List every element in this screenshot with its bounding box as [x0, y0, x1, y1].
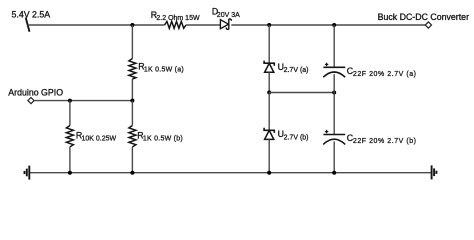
capacitor C 22F 20% 2.7V (a): [323, 63, 345, 77]
ground right: [432, 165, 437, 179]
svg-text:Arduino GPIO: Arduino GPIO: [8, 88, 63, 98]
capacitor C 22F 20% 2.7V (b): [323, 130, 345, 145]
svg-text:22F 20% 2.7V (b): 22F 20% 2.7V (b): [353, 138, 417, 145]
wire cap b to bottom rail: [333, 141, 335, 172]
label D 20V 3A: [212, 7, 240, 19]
label R 2.2 Ohm 15W: [151, 10, 200, 22]
node GPIO rail junction at R1K: [130, 99, 134, 103]
label C 22F 20% 2.7V (b): [347, 133, 417, 145]
label C 22F 20% 2.7V (a): [347, 66, 417, 78]
svg-text:1K 0.5W (a): 1K 0.5W (a): [144, 67, 184, 74]
diode D1 schottky 20V 3A: [220, 19, 231, 30]
port diamond Arduino GPIO: [28, 98, 34, 104]
node top rail junction at R1Ka: [130, 23, 134, 27]
label R 1K 0.5W (b): [137, 131, 183, 143]
wire R10K to bottom rail: [69, 147, 71, 173]
wire zener a to mid node: [268, 72, 270, 92]
label R 10K 0.25W: [76, 131, 117, 143]
label R 1K 0.5W (a): [138, 62, 184, 74]
node GPIO rail junction at R10K: [68, 99, 72, 103]
zener U 2.7V (a): [264, 61, 274, 73]
wire top rail left segment: [28, 24, 165, 26]
zener U 2.7V (b): [264, 128, 274, 140]
node bottom rail at cap b: [332, 171, 336, 175]
label U 2.7V (b): [278, 129, 309, 141]
wire mid node to cap b: [333, 93, 335, 135]
wire top rail to cap a: [333, 25, 335, 67]
resistor R1K 0.5W (b): [129, 126, 136, 147]
ground left: [25, 166, 30, 180]
resistor R10K 0.25W: [66, 126, 73, 147]
wire R1Kb to bottom rail: [131, 147, 133, 173]
node bottom rail at zener b: [267, 171, 271, 175]
node top rail junction at cap a: [332, 23, 336, 27]
wire top rail to zener a: [268, 25, 270, 63]
wire R1Ka to GPIO node: [131, 79, 133, 101]
wire top rail right segment: [231, 24, 425, 26]
wire zener b to bottom rail: [268, 139, 270, 172]
wire from top rail to R1Ka: [131, 25, 133, 59]
wire bottom rail: [29, 172, 431, 174]
port diamond Buck DC-DC Converter: [425, 22, 431, 28]
node mid rail left: [267, 91, 271, 95]
node bottom rail at R1Kb: [130, 171, 134, 175]
wire GPIO node to R10K: [69, 101, 71, 126]
svg-text:1K 0.5W (b): 1K 0.5W (b): [143, 136, 183, 143]
input terminal stub: [26, 18, 30, 32]
wire Arduino GPIO rail: [34, 100, 132, 102]
resistor R1K 0.5W (a): [129, 59, 136, 80]
svg-text:Buck DC-DC Converter: Buck DC-DC Converter: [378, 12, 469, 22]
svg-text:2.7V (a): 2.7V (a): [284, 67, 309, 74]
wire mid node to zener b: [268, 93, 270, 131]
wire GPIO node to R1Kb: [131, 101, 133, 126]
svg-text:22F 20% 2.7V (a): 22F 20% 2.7V (a): [353, 71, 417, 78]
resistor R1 2.2 Ohm 15W: [165, 21, 186, 28]
wire cap a to mid node: [333, 74, 335, 92]
svg-text:10K 0.25W: 10K 0.25W: [82, 136, 117, 143]
label U 2.7V (a): [278, 62, 309, 74]
svg-text:2.2 Ohm 15W: 2.2 Ohm 15W: [156, 15, 200, 22]
svg-text:2.7V (b): 2.7V (b): [284, 134, 309, 141]
node mid rail right: [332, 91, 336, 95]
svg-text:20V 3A: 20V 3A: [217, 12, 240, 19]
node top rail junction at zener a: [267, 23, 271, 27]
wire mid rail: [269, 92, 334, 94]
svg-text:5.4V 2.5A: 5.4V 2.5A: [12, 9, 51, 19]
wire top rail mid segment: [186, 24, 221, 26]
node bottom rail at R10K: [68, 171, 72, 175]
